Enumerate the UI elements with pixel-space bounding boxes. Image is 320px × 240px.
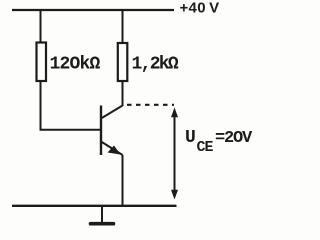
transistor Q1 collector lead xyxy=(102,106,123,119)
svg-text:+40 V: +40 V xyxy=(180,0,220,17)
resistor R2 body xyxy=(118,43,128,81)
wire: dashed line from collector node to UCE arrow xyxy=(127,104,174,106)
svg-text:12OkΩ: 12OkΩ xyxy=(50,55,101,75)
transistor Q1 base bar xyxy=(100,106,102,156)
wire: R1 bottom to base corner xyxy=(41,81,102,130)
wire: bottom ground rail xyxy=(12,205,177,207)
ground symbol xyxy=(91,206,114,224)
node: top rail junction to R1 xyxy=(40,10,42,43)
svg-text:1,2kΩ: 1,2kΩ xyxy=(132,55,179,75)
label: UCE = 20V xyxy=(185,128,253,156)
wire: emitter down to ground rail xyxy=(122,155,124,206)
resistor R1 body xyxy=(37,43,47,82)
node: top rail junction to R2 xyxy=(122,10,124,43)
measurement arrow UCE (double headed vertical) xyxy=(171,108,178,200)
wire: R2 bottom to collector xyxy=(122,81,124,106)
svg-text:CE: CE xyxy=(197,139,214,156)
svg-text:U: U xyxy=(185,128,196,148)
transistor Q1 emitter lead with arrow xyxy=(102,142,123,155)
wire: +40V top supply rail xyxy=(12,9,174,11)
svg-text:=2OV: =2OV xyxy=(215,129,253,148)
